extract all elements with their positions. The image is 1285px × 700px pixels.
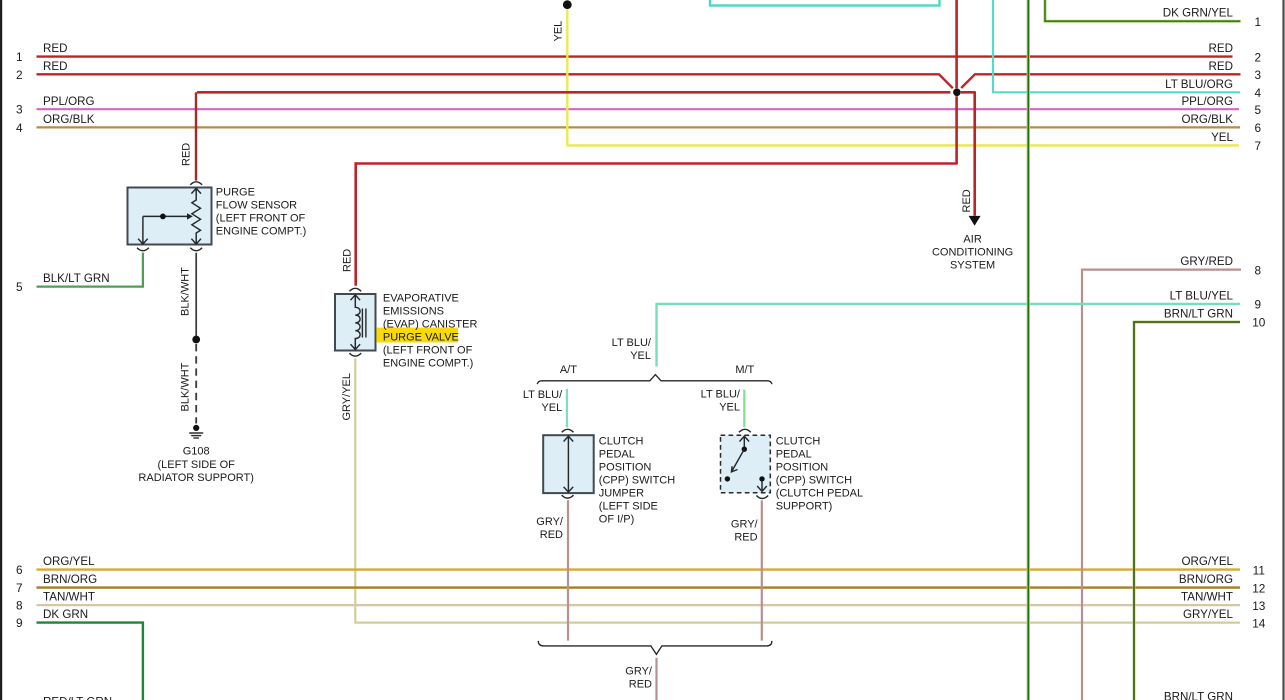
svg-text:M/T: M/T [735, 364, 754, 376]
label GRY/RED A/T [536, 516, 564, 541]
connector arc bottom (EVAP) [349, 353, 361, 356]
svg-text:YEL: YEL [1211, 131, 1233, 144]
pin arrow down (sensor right) [191, 237, 201, 244]
svg-text:BRN/ORG: BRN/ORG [43, 573, 97, 586]
svg-text:BRN/LT GRN: BRN/LT GRN [1164, 308, 1233, 321]
svg-text:GRY/RED: GRY/RED [1180, 255, 1233, 268]
wire GRY/RED below M/T switch [761, 500, 763, 640]
wire LT BLU/YEL stub above A/T brace [655, 304, 657, 367]
svg-text:8: 8 [16, 599, 23, 613]
wire LT BLU/YEL row9 right [657, 304, 1241, 367]
svg-text:2: 2 [16, 68, 23, 82]
label PURGE FLOW SENSOR text [216, 186, 306, 237]
wire BRN/ORG row7 left / row12 right [37, 586, 1241, 588]
svg-text:BRN/LT GRN: BRN/LT GRN [1164, 691, 1233, 700]
svg-text:3: 3 [1255, 68, 1262, 82]
right page border [1282, 0, 1284, 700]
svg-text:4: 4 [16, 121, 23, 135]
svg-text:6: 6 [16, 563, 23, 577]
svg-text:PPL/ORG: PPL/ORG [1181, 95, 1233, 108]
wire RED row3 right segment [961, 74, 1240, 88]
wire RED horizontal into junction from purge sensor [197, 91, 950, 94]
svg-text:RED: RED [1209, 60, 1233, 73]
highlight PURGE VALVE [376, 328, 458, 343]
svg-text:12: 12 [1252, 581, 1265, 595]
svg-text:POSITION: POSITION [776, 461, 829, 473]
svg-text:(EVAP) CANISTER: (EVAP) CANISTER [383, 319, 478, 331]
svg-text:ORG/BLK: ORG/BLK [43, 113, 95, 126]
wire GRY/RED below A/T jumper [567, 500, 569, 640]
svg-text:G108: G108 [183, 446, 210, 458]
svg-text:GRY/: GRY/ [625, 666, 653, 678]
wire RED from junction right then down to A/C arrow [961, 92, 975, 216]
svg-text:4: 4 [1255, 86, 1262, 100]
svg-text:ORG/YEL: ORG/YEL [1181, 555, 1233, 568]
ground G108 symbol [189, 425, 203, 438]
svg-text:2: 2 [1255, 50, 1262, 64]
svg-text:(LEFT FRONT OF: (LEFT FRONT OF [383, 345, 473, 357]
svg-text:BRN/ORG: BRN/ORG [1179, 573, 1233, 586]
connector arc top (sensor) [190, 182, 202, 185]
svg-text:(LEFT SIDE: (LEFT SIDE [599, 500, 658, 512]
brace lower GRY/RED merge [538, 641, 772, 655]
connector arc bottom right (sensor) [190, 248, 202, 251]
svg-text:3: 3 [16, 103, 23, 117]
svg-text:RED: RED [43, 60, 67, 73]
svg-text:EMISSIONS: EMISSIONS [383, 306, 444, 318]
resistor element inside sensor [192, 195, 201, 239]
svg-text:FLOW SENSOR: FLOW SENSOR [216, 199, 297, 211]
label LT BLU/YEL M/T branch [701, 389, 741, 414]
left row numbers [16, 50, 23, 630]
pin arrow down (sensor left) [142, 216, 144, 244]
connector arc top (M/T switch) [739, 429, 751, 432]
switch blade diagonal [732, 449, 745, 471]
connector box (cut off at top) [710, 0, 940, 6]
svg-text:13: 13 [1252, 599, 1266, 613]
svg-text:PEDAL: PEDAL [776, 448, 812, 460]
svg-text:GRY/: GRY/ [731, 519, 759, 531]
svg-text:DK GRN/YEL: DK GRN/YEL [1163, 7, 1234, 20]
wire BLK/LT GRN row5 left [37, 253, 143, 287]
svg-text:EVAPORATIVE: EVAPORATIVE [383, 293, 459, 305]
svg-text:7: 7 [1255, 139, 1262, 153]
wire RED row1 left / row2 right [37, 55, 1233, 57]
svg-text:YEL: YEL [719, 402, 740, 414]
svg-text:LT BLU/: LT BLU/ [612, 337, 652, 349]
svg-text:TAN/WHT: TAN/WHT [43, 591, 95, 604]
svg-text:LT BLU/: LT BLU/ [701, 389, 741, 401]
wire BLK/WHT solid below sensor [195, 253, 197, 337]
wire GRY/RED below lower brace [655, 658, 657, 700]
node junction dot [953, 89, 961, 97]
svg-text:CLUTCH: CLUTCH [776, 435, 821, 447]
svg-text:5: 5 [1255, 103, 1262, 117]
svg-text:RADIATOR SUPPORT): RADIATOR SUPPORT) [138, 472, 254, 484]
svg-text:RED: RED [734, 532, 757, 544]
svg-text:RED/LT GRN: RED/LT GRN [43, 695, 112, 700]
label GRY/RED lower [625, 666, 653, 691]
svg-text:LT BLU/: LT BLU/ [523, 389, 563, 401]
label G108 [138, 446, 254, 485]
svg-text:ORG/BLK: ORG/BLK [1181, 113, 1233, 126]
node YEL top junction dot [563, 0, 572, 9]
svg-text:1: 1 [1255, 15, 1262, 29]
pin arrow up (sensor) [191, 188, 201, 195]
wire GRY/YEL from EVAP valve down [354, 359, 356, 624]
svg-text:TAN/WHT: TAN/WHT [1181, 591, 1233, 604]
wiper arm with junction dot [143, 215, 188, 217]
svg-text:POSITION: POSITION [599, 461, 652, 473]
svg-text:ENGINE COMPT.): ENGINE COMPT.) [383, 358, 473, 370]
solenoid coil [355, 301, 360, 344]
connector arc top (A/T jumper) [562, 429, 574, 432]
svg-text:AIR: AIR [963, 234, 981, 246]
wire RED from junction down to EVAP branch [356, 96, 957, 163]
svg-text:GRY/YEL: GRY/YEL [341, 373, 353, 421]
connector arc bottom (A/T jumper) [562, 495, 574, 498]
svg-text:6: 6 [1255, 121, 1262, 135]
wire YEL vertical from top dot [566, 10, 568, 147]
wire BRN/LT GRN row10 right [1134, 322, 1240, 700]
svg-text:DK GRN: DK GRN [43, 608, 88, 621]
svg-text:5: 5 [16, 280, 23, 294]
svg-text:1: 1 [16, 50, 23, 64]
svg-text:14: 14 [1252, 616, 1266, 630]
left page border [0, 0, 2, 700]
svg-text:ORG/YEL: ORG/YEL [43, 555, 95, 568]
label LT BLU/YEL A/T branch [523, 389, 563, 414]
svg-text:YEL: YEL [541, 402, 562, 414]
arrow to AIR CONDITIONING SYSTEM [969, 216, 981, 226]
jumper double-arrow [567, 437, 569, 492]
wire LT BLU/ORG row4 right [993, 0, 1240, 92]
left row labels [43, 42, 112, 700]
component EVAP CANISTER PURGE VALVE [335, 288, 376, 356]
label EVAP valve text [383, 293, 478, 370]
svg-text:CLUTCH: CLUTCH [599, 435, 644, 447]
node BLK/WHT junction dot [192, 336, 200, 344]
svg-text:GRY/YEL: GRY/YEL [1183, 608, 1234, 621]
svg-text:A/T: A/T [560, 364, 577, 376]
svg-text:BLK/LT GRN: BLK/LT GRN [43, 272, 110, 285]
wire LT BLU/YEL M/T branch [743, 390, 745, 428]
svg-text:BLK/WHT: BLK/WHT [180, 267, 192, 316]
svg-text:(CPP) SWITCH: (CPP) SWITCH [599, 474, 675, 486]
svg-text:YEL: YEL [630, 350, 651, 362]
svg-text:(CLUTCH PEDAL: (CLUTCH PEDAL [776, 487, 863, 499]
label AIR CONDITIONING SYSTEM [932, 234, 1013, 272]
svg-text:CONDITIONING: CONDITIONING [932, 247, 1013, 259]
switch common arrow up [743, 437, 745, 449]
brace A/T-M/T split [537, 375, 772, 385]
svg-text:11: 11 [1253, 563, 1265, 577]
svg-text:RED: RED [342, 249, 354, 272]
svg-text:JUMPER: JUMPER [599, 487, 644, 499]
wire GRY/RED row8 right [1082, 270, 1241, 700]
wire TAN/WHT row8 left / row13 right [37, 604, 1241, 606]
svg-text:7: 7 [16, 581, 23, 595]
svg-text:PPL/ORG: PPL/ORG [43, 95, 95, 108]
label GRY/RED M/T [731, 519, 759, 544]
component CPP SWITCH (M/T) [721, 429, 771, 498]
wire RED vertical into junction from top [955, 0, 958, 88]
svg-text:RED: RED [629, 679, 652, 691]
connector arc bottom (M/T switch) [756, 496, 768, 499]
right row numbers [1252, 15, 1266, 630]
wire RED row2 left / row3 right (with dip at junction) [37, 74, 953, 88]
svg-text:PURGE VALVE: PURGE VALVE [383, 332, 459, 344]
switch contact arrow down [759, 476, 764, 481]
svg-text:LT BLU/YEL: LT BLU/YEL [1170, 290, 1234, 303]
svg-text:9: 9 [1255, 298, 1262, 312]
wire BLK/WHT dashed to ground [195, 344, 197, 424]
svg-text:RED: RED [1209, 42, 1233, 55]
svg-text:OF I/P): OF I/P) [599, 513, 634, 525]
svg-text:9: 9 [16, 616, 23, 630]
wire LT BLU/YEL A/T branch [566, 389, 568, 428]
svg-text:SUPPORT): SUPPORT) [776, 500, 833, 512]
svg-text:GRY/: GRY/ [536, 516, 564, 528]
wire ORG/BLK row4 left / row6 right [37, 126, 1241, 128]
svg-text:RED: RED [961, 189, 973, 212]
wire RED vertical down to EVAP valve [354, 162, 357, 285]
wire DK GRN full-height vertical [1027, 0, 1030, 700]
label CPP switch text [776, 435, 863, 512]
pin arrow up (EVAP) [351, 295, 361, 302]
wire DK GRN/YEL row1 right [1045, 0, 1241, 21]
svg-text:(CPP) SWITCH: (CPP) SWITCH [776, 474, 852, 486]
pin arrow down (EVAP) [351, 343, 361, 350]
svg-text:BLK/WHT: BLK/WHT [180, 362, 192, 411]
right row labels [1163, 7, 1234, 700]
connector arc bottom left (sensor) [137, 248, 149, 251]
svg-text:SYSTEM: SYSTEM [950, 260, 995, 272]
svg-text:10: 10 [1252, 316, 1266, 330]
label LT BLU/YEL above brace [612, 337, 652, 362]
wire GRY/YEL row14 right [355, 621, 1240, 623]
wire PPL/ORG row3 left / row5 right [37, 108, 1240, 110]
svg-text:YEL: YEL [553, 21, 565, 42]
svg-text:RED: RED [43, 42, 67, 55]
svg-text:(LEFT FRONT OF: (LEFT FRONT OF [216, 212, 306, 224]
svg-text:PURGE: PURGE [216, 186, 255, 198]
svg-text:RED: RED [540, 529, 563, 541]
wire RED vertical to purge flow sensor [195, 92, 197, 180]
coil core bars [361, 309, 363, 338]
label CPP switch jumper text [599, 435, 675, 525]
svg-text:(LEFT SIDE OF: (LEFT SIDE OF [157, 459, 235, 471]
component CPP SWITCH JUMPER (A/T) [543, 429, 594, 498]
svg-text:RED: RED [181, 143, 193, 166]
wire YEL row7 right [567, 144, 1239, 146]
wire ORG/YEL row6 left / row11 right [37, 568, 1241, 570]
wire DK GRN row9 left [37, 623, 143, 700]
component PURGE FLOW SENSOR [128, 182, 212, 251]
svg-text:ENGINE COMPT.): ENGINE COMPT.) [216, 225, 306, 237]
connector arc top (EVAP) [349, 288, 361, 291]
svg-text:LT BLU/ORG: LT BLU/ORG [1165, 78, 1233, 91]
svg-text:8: 8 [1255, 263, 1262, 277]
svg-text:PEDAL: PEDAL [599, 448, 635, 460]
